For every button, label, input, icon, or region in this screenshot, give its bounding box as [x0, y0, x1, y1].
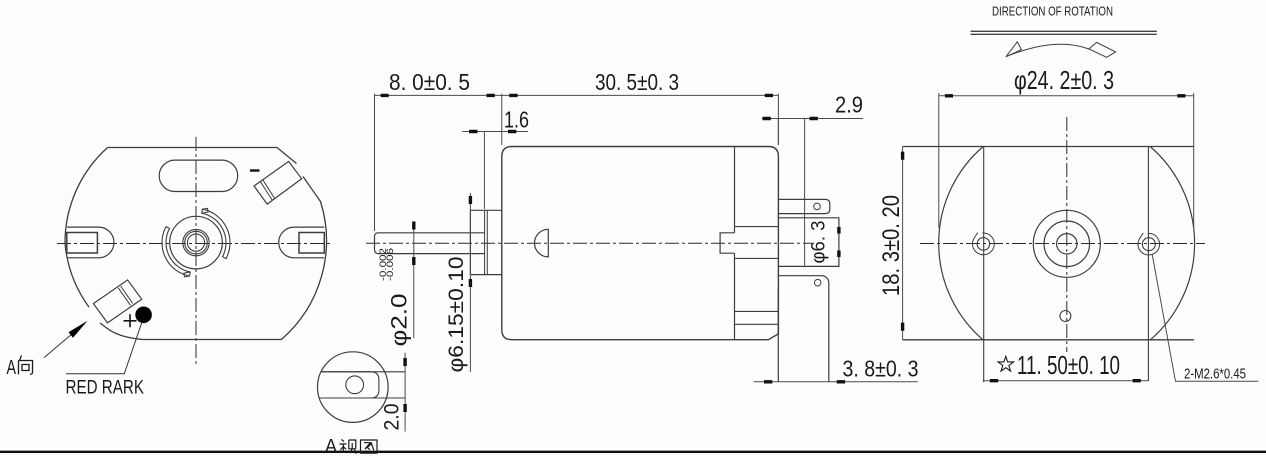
- A view center hole: [346, 376, 364, 394]
- left view centerline horizontal: [57, 243, 333, 245]
- motor end-cap outline: [65, 148, 326, 340]
- right view centerline vertical: [1066, 117, 1068, 352]
- A-direction leader arrow: [44, 327, 80, 357]
- terminal tab upper right slit: [260, 180, 274, 200]
- brush holder block: [778, 218, 839, 267]
- glyph shi (vision): [340, 440, 358, 454]
- rear bushing notch: [720, 233, 734, 253]
- svg-text:2-M2.6*0.45: 2-M2.6*0.45: [1184, 367, 1246, 383]
- svg-text:3. 8±0. 3: 3. 8±0. 3: [843, 356, 919, 382]
- svg-text:φ24. 2±0. 3: φ24. 2±0. 3: [1014, 65, 1114, 95]
- center ring circle a: [183, 229, 209, 255]
- center bearing circle outer: [170, 216, 223, 269]
- brush arc band right end tab: [202, 208, 209, 213]
- dim 30.5±0.3: [502, 94, 779, 145]
- minus polarity mark: [250, 169, 260, 171]
- top vent slot: [159, 160, 238, 191]
- svg-text:30. 5±0. 3: 30. 5±0. 3: [595, 69, 679, 95]
- A view flat chords: [319, 372, 405, 398]
- svg-text:2.9: 2.9: [835, 92, 863, 118]
- brush arc band left end tab: [184, 272, 191, 277]
- dim 2.9: [762, 119, 863, 266]
- svg-text:-0.006: -0.006: [385, 248, 396, 281]
- rotation arrow tail flag: [1089, 42, 1116, 57]
- svg-text:A: A: [325, 437, 337, 456]
- face side edge right: [1147, 147, 1149, 382]
- svg-text:φ2.0: φ2.0: [387, 294, 412, 347]
- svg-text:11. 50±0. 10: 11. 50±0. 10: [1017, 350, 1120, 380]
- right slot inner rect: [299, 233, 324, 254]
- dim phi6.3: [837, 227, 840, 257]
- dim 18.3±0.20: [902, 147, 904, 340]
- tapped hole left: [977, 238, 990, 251]
- side view centerline: [366, 242, 812, 244]
- plus polarity mark: [124, 314, 137, 327]
- dim phi24.2±0.3: [939, 93, 1194, 228]
- svg-text:RED RARK: RED RARK: [66, 377, 145, 399]
- dim 2.0: [404, 353, 406, 432]
- double underline: [971, 31, 1157, 34]
- left view centerline vertical: [195, 137, 197, 367]
- terminal lower bent down: [778, 276, 829, 382]
- face top edge: [903, 146, 1194, 148]
- center shaft hole: [187, 234, 204, 251]
- A view shaft circle: [318, 352, 389, 423]
- tapped hole right: [1142, 238, 1155, 251]
- svg-text:DIRECTION OF ROTATION: DIRECTION OF ROTATION: [992, 5, 1113, 19]
- A view key slot: [319, 372, 379, 398]
- bearing boss: [470, 210, 501, 274]
- brush arc band right: [202, 209, 230, 258]
- left side slot: [67, 227, 114, 258]
- left bulge arc: [939, 147, 983, 340]
- svg-text:8. 0±0. 5: 8. 0±0. 5: [389, 69, 470, 95]
- terminal lower hole: [814, 279, 821, 286]
- glyph tu (drawing): [361, 440, 378, 453]
- drawing sheet bottom border: [0, 451, 1266, 453]
- right view centerline horizontal: [920, 243, 1205, 245]
- terminal tab lower left slit: [118, 286, 133, 305]
- right side slot: [279, 227, 324, 258]
- dim 8.0±0.5: [375, 94, 502, 231]
- bearing boss flange double line: [485, 210, 488, 274]
- vent hole half moon: [535, 229, 549, 257]
- end cap inner lines: [735, 227, 779, 259]
- dim 3.8±0.3: [754, 381, 918, 383]
- bottom pilot hole: [1060, 311, 1071, 322]
- center boss circle outer: [1033, 210, 1100, 277]
- terminal upper: [778, 199, 829, 213]
- left slot inner rect: [67, 233, 98, 254]
- center boss circle mid: [1044, 221, 1090, 267]
- red mark leader: [66, 323, 142, 374]
- terminal tab lower left: [93, 280, 141, 323]
- brush arc band left: [162, 227, 190, 276]
- terminal upper hole: [814, 203, 821, 210]
- center shaft: [1057, 234, 1077, 254]
- svg-text:φ6.15±0.10: φ6.15±0.10: [445, 257, 468, 373]
- face side edge left: [983, 147, 985, 383]
- red mark dot: [135, 307, 152, 324]
- dim star 11.50±0.10: [983, 380, 1148, 382]
- terminal tab upper right: [254, 161, 302, 204]
- face bottom edge: [903, 339, 1194, 341]
- right bulge arc: [1150, 147, 1194, 340]
- center ring circle b: [185, 231, 208, 254]
- svg-text:φ6. 3: φ6. 3: [809, 221, 830, 264]
- svg-text:A: A: [7, 357, 17, 379]
- svg-text:18. 3±0. 20: 18. 3±0. 20: [878, 195, 905, 296]
- rotation arrow arc: [1006, 44, 1089, 56]
- dim 1.6: [462, 132, 528, 210]
- leader 2-M2.6*0.45: [1152, 255, 1258, 382]
- svg-text:1.6: 1.6: [504, 107, 529, 133]
- star symbol: [998, 356, 1014, 371]
- svg-text:2.0: 2.0: [381, 404, 404, 431]
- dim phi2.0 tol: [413, 222, 415, 338]
- rotation arrow head: [1006, 42, 1021, 57]
- end cap seam line: [734, 147, 736, 340]
- shaft: [375, 233, 485, 254]
- motor body: [502, 147, 779, 340]
- dim phi6.15±0.10: [469, 193, 471, 372]
- end cap crimp lines bottom: [735, 311, 779, 324]
